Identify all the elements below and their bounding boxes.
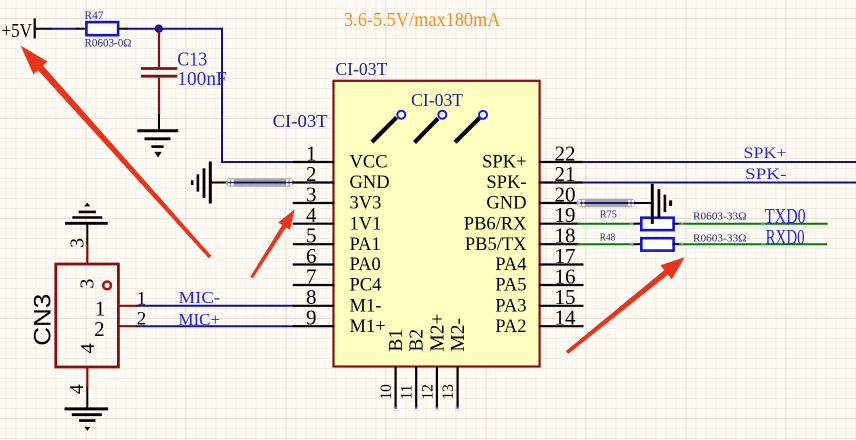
- annotation arrow 3 (to RXD0 resistor): [566, 257, 685, 354]
- svg-text:3: 3: [77, 279, 99, 289]
- svg-text:CI-03T: CI-03T: [335, 59, 387, 79]
- wire pin18 to R48 (green): [577, 243, 643, 245]
- svg-text:SPK+: SPK+: [744, 145, 787, 162]
- ground at pin 2 (left, rotated): [192, 162, 229, 204]
- svg-text:SPK-: SPK-: [745, 166, 787, 183]
- svg-text:RXD0: RXD0: [766, 225, 805, 249]
- svg-text:10: 10: [378, 384, 395, 400]
- wire R48 to RXD0 (green): [673, 243, 828, 245]
- highlighted wire segment pin2: [226, 178, 294, 186]
- svg-text:PB6/RX: PB6/RX: [464, 214, 527, 234]
- ground above CN3 (inverted): [65, 203, 108, 245]
- vertex markers (light blue): [393, 222, 765, 412]
- left pin names: [350, 153, 390, 337]
- svg-text:PA0: PA0: [350, 255, 381, 275]
- svg-text:M1-: M1-: [350, 296, 382, 316]
- wire SPK- net: [582, 182, 856, 184]
- svg-text:R0603-33Ω: R0603-33Ω: [693, 233, 747, 245]
- bottom pin stubs 10-13: [396, 367, 458, 409]
- wire SPK+ net: [582, 161, 856, 163]
- wire MIC- net: [137, 305, 294, 307]
- wire pin19 to R75 (green): [577, 223, 643, 225]
- wire stem CN3 pin4 to ground: [86, 387, 88, 409]
- svg-text:3.6-5.5V/max180mA: 3.6-5.5V/max180mA: [344, 10, 501, 31]
- svg-text:1V1: 1V1: [350, 214, 382, 234]
- wire GND pin2: [228, 182, 294, 184]
- svg-text:CN3: CN3: [29, 294, 56, 346]
- svg-text:MIC+: MIC+: [179, 310, 221, 329]
- wire GND pin20: [580, 202, 637, 204]
- annotation arrow 1 (to +5V): [21, 46, 212, 259]
- junction dot: [155, 25, 163, 33]
- svg-text:14: 14: [555, 306, 577, 330]
- svg-text:R47: R47: [85, 8, 104, 22]
- svg-text:9: 9: [306, 306, 317, 330]
- antenna jumper 1: [372, 111, 405, 142]
- right pin names: [464, 153, 527, 337]
- antenna jumper 2: [415, 111, 447, 143]
- svg-text:GND: GND: [486, 194, 526, 214]
- left pin stubs 1-9: [293, 162, 335, 326]
- wire MIC+ net: [137, 325, 294, 327]
- svg-text:3: 3: [67, 238, 88, 248]
- svg-text:PA5: PA5: [495, 276, 526, 296]
- svg-text:2: 2: [94, 317, 105, 341]
- wire R47 to junction: [118, 28, 223, 30]
- highlighted wire segment pin20: [577, 199, 638, 207]
- wire C13 to ground: [158, 114, 160, 130]
- left pin numbers 1-9: [306, 141, 317, 329]
- wire R75 to TXD0 (green): [673, 223, 828, 225]
- connector CN3: [29, 244, 137, 387]
- svg-text:SPK+: SPK+: [482, 153, 526, 173]
- ground at pin 20 (right, rotated): [652, 184, 670, 224]
- svg-text:PB5/TX: PB5/TX: [465, 235, 527, 255]
- svg-text:R0603-0Ω: R0603-0Ω: [85, 37, 132, 49]
- svg-text:PC4: PC4: [350, 276, 382, 296]
- svg-text:M1+: M1+: [350, 317, 386, 337]
- resistor R48: [600, 233, 747, 251]
- wire +5V to R47: [35, 28, 87, 30]
- svg-text:PA1: PA1: [350, 235, 381, 255]
- svg-text:R75: R75: [600, 210, 617, 221]
- bottom pin numbers 10-13: [378, 384, 457, 400]
- svg-text:SPK-: SPK-: [486, 173, 526, 193]
- svg-text:3V3: 3V3: [350, 194, 382, 214]
- svg-text:PA2: PA2: [495, 317, 526, 337]
- svg-text:CI-03T: CI-03T: [273, 111, 328, 131]
- svg-text:GND: GND: [350, 173, 390, 193]
- op-amp/module U1 CI-03T body: [334, 81, 540, 367]
- right pin numbers 22-14: [555, 141, 577, 329]
- svg-text:VCC: VCC: [350, 153, 388, 173]
- resistor R47: [85, 8, 132, 49]
- antenna jumper 3: [455, 111, 487, 142]
- svg-text:R0603-33Ω: R0603-33Ω: [693, 210, 747, 222]
- svg-text:CI-03T: CI-03T: [411, 90, 463, 110]
- svg-text:11: 11: [399, 385, 416, 400]
- power port +5V: [2, 18, 35, 42]
- right pin stubs 22-14: [539, 162, 584, 326]
- svg-text:MIC-: MIC-: [179, 288, 221, 307]
- svg-text:B2: B2: [407, 329, 428, 352]
- svg-text:4: 4: [67, 384, 88, 394]
- bottom pin names B1 B2 M2+ M2-: [386, 314, 469, 352]
- svg-text:PA3: PA3: [495, 296, 526, 316]
- ground below CN3: [65, 409, 109, 431]
- svg-text:12: 12: [419, 384, 436, 400]
- svg-text:B1: B1: [386, 329, 407, 352]
- svg-text:4: 4: [77, 343, 99, 353]
- ground under C13: [137, 131, 178, 158]
- svg-text:100nF: 100nF: [177, 68, 227, 90]
- annotation arrow 2 (to 3V3 area): [250, 209, 294, 278]
- svg-text:PA4: PA4: [495, 255, 526, 275]
- svg-text:+5V: +5V: [2, 20, 33, 42]
- svg-text:13: 13: [440, 384, 457, 400]
- svg-text:M2-: M2-: [448, 318, 469, 352]
- svg-text:M2+: M2+: [427, 314, 448, 352]
- svg-text:R48: R48: [600, 233, 616, 244]
- resistor R75: [600, 210, 747, 230]
- wire junction down to pin1 VCC: [221, 28, 294, 163]
- capacitor C13: [141, 29, 227, 116]
- wire pin20 to ground: [634, 202, 653, 204]
